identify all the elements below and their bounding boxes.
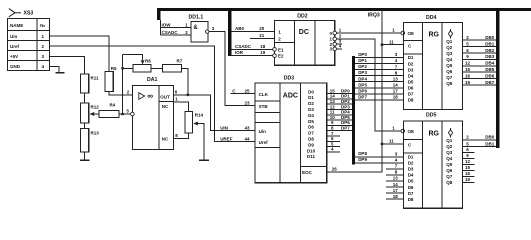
wire DD2 out1 to DD5 OE bbox=[337, 39, 402, 131]
svg-text:D8: D8 bbox=[408, 197, 414, 202]
svg-text:Q1: Q1 bbox=[446, 138, 453, 143]
DD5 tri-state symbol bbox=[448, 128, 452, 138]
svg-text:GND: GND bbox=[10, 64, 21, 69]
resistor R12 (pot) bbox=[80, 103, 88, 123]
svg-text:D5: D5 bbox=[408, 179, 414, 184]
resistor R6 (pot) bbox=[133, 65, 151, 73]
wires DP8/DP9 to DD5 bbox=[355, 156, 403, 158]
svg-text:Q3: Q3 bbox=[446, 51, 453, 56]
svg-text:21: 21 bbox=[259, 33, 265, 38]
DD4 outputs to DB bus bbox=[463, 40, 497, 85]
svg-text:D6: D6 bbox=[408, 86, 414, 91]
ground (R13) bbox=[80, 159, 90, 161]
ADC D8-D11 stubs bbox=[327, 136, 340, 152]
svg-text:IOW: IOW bbox=[162, 22, 172, 27]
resistor R7 bbox=[162, 65, 181, 73]
ADC D labels inside bbox=[307, 89, 316, 159]
svg-text:Q7: Q7 bbox=[446, 174, 453, 179]
svg-text:R11: R11 bbox=[91, 76, 100, 81]
wire +5V from table to R11 top bbox=[50, 56, 85, 74]
svg-text:DB7: DB7 bbox=[485, 80, 494, 85]
svg-text:DD3: DD3 bbox=[284, 76, 294, 82]
svg-text:DP0: DP0 bbox=[358, 52, 367, 57]
svg-text:DB1: DB1 bbox=[485, 41, 494, 46]
svg-text:DP3: DP3 bbox=[358, 70, 367, 75]
svg-text:16: 16 bbox=[465, 171, 471, 176]
bus stub 2 (AB0/CSADC/IOR tap) bbox=[228, 8, 231, 56]
svg-text:D9: D9 bbox=[308, 142, 314, 147]
svg-text:OE: OE bbox=[408, 31, 415, 36]
DD5 OE bubble bbox=[401, 129, 405, 133]
svg-text:OE: OE bbox=[408, 129, 415, 134]
svg-text:D2: D2 bbox=[308, 101, 314, 106]
svg-text:D1: D1 bbox=[408, 155, 414, 160]
svg-text:13: 13 bbox=[393, 176, 399, 181]
svg-text:DP2: DP2 bbox=[341, 99, 350, 104]
wiper arrow R4 into R12 bbox=[94, 113, 99, 115]
svg-text:25: 25 bbox=[245, 88, 251, 93]
wire GND from table bbox=[50, 66, 59, 72]
svg-text:D8: D8 bbox=[408, 98, 414, 103]
svg-text:18: 18 bbox=[393, 194, 399, 199]
DD5 unused output stubs bbox=[463, 152, 475, 182]
svg-text:DP1: DP1 bbox=[358, 58, 367, 63]
svg-text:D10: D10 bbox=[307, 148, 316, 153]
svg-text:14: 14 bbox=[393, 83, 399, 88]
svg-text:D11: D11 bbox=[307, 154, 316, 159]
wire R13 to ground bbox=[84, 152, 86, 160]
svg-text:44: 44 bbox=[245, 137, 251, 142]
decoder DD2 bbox=[275, 13, 335, 65]
wire stub DD2 out3 bbox=[337, 48, 342, 50]
node (EOC to DD4 C) bbox=[381, 43, 384, 46]
svg-text:Q5: Q5 bbox=[446, 162, 453, 167]
svg-text:DB2: DB2 bbox=[485, 48, 494, 53]
DD2 output 0 bubble bbox=[333, 31, 337, 35]
connector XS3 symbol bbox=[9, 9, 21, 17]
svg-text:DP6: DP6 bbox=[358, 88, 367, 93]
svg-text:DP6: DP6 bbox=[341, 120, 350, 125]
EOC wire to IRQ3 / register clocks bbox=[327, 11, 382, 172]
svg-text:NC: NC bbox=[162, 136, 169, 141]
svg-text:19: 19 bbox=[465, 177, 471, 182]
resistor R14 (pot) bbox=[185, 111, 193, 133]
svg-text:DB0: DB0 bbox=[485, 135, 494, 140]
DP labels (ADC side) bbox=[341, 88, 350, 130]
svg-text:14: 14 bbox=[330, 94, 336, 99]
svg-text:D4: D4 bbox=[308, 113, 314, 118]
svg-text:DB5: DB5 bbox=[485, 67, 494, 72]
bus stub left (IOW/CSADC tap) bbox=[157, 8, 160, 20]
svg-text:D3: D3 bbox=[308, 107, 314, 112]
wiper of R14 to ground bbox=[193, 122, 198, 126]
wire DA1 OUT to ADC UIN bbox=[174, 95, 256, 131]
svg-text:DP8: DP8 bbox=[358, 151, 367, 156]
DD1.1 output bubble pin3 bbox=[206, 30, 209, 33]
svg-text:R13: R13 bbox=[91, 131, 100, 136]
svg-text:№: № bbox=[40, 23, 45, 28]
svg-text:13: 13 bbox=[393, 76, 399, 81]
svg-text:CSADC: CSADC bbox=[162, 30, 179, 35]
DP data bus (vertical) bbox=[352, 56, 355, 165]
svg-text:11: 11 bbox=[389, 138, 394, 143]
svg-text:DB0: DB0 bbox=[485, 35, 494, 40]
svg-text:Uref: Uref bbox=[10, 44, 20, 49]
resistor R4 bbox=[99, 111, 119, 118]
register DD4 bbox=[403, 15, 462, 110]
wire AB0 to DD2 bbox=[231, 31, 274, 33]
svg-text:D2: D2 bbox=[408, 161, 414, 166]
svg-text:DB1: DB1 bbox=[485, 141, 494, 146]
svg-text:DD4: DD4 bbox=[426, 15, 436, 21]
wire R5 bottom to DA1 pin 2 bbox=[109, 92, 133, 95]
ADC data outputs D0-D7 to DP bus bbox=[327, 94, 352, 131]
DD4 tri-state symbol bbox=[448, 29, 452, 39]
DP labels (DD4 side) bbox=[358, 52, 367, 99]
wires DP0-DP7 to DD4 inputs bbox=[355, 58, 403, 100]
svg-text:17: 17 bbox=[393, 89, 399, 94]
svg-text:DP5: DP5 bbox=[358, 82, 367, 87]
DD2 output 3 bubble bbox=[333, 47, 337, 51]
svg-text:Q8: Q8 bbox=[446, 81, 453, 86]
svg-text:D1: D1 bbox=[308, 95, 314, 100]
svg-text:E2: E2 bbox=[278, 54, 284, 59]
wire stub DD2 input 2 bbox=[250, 38, 275, 40]
svg-text:R12: R12 bbox=[91, 105, 100, 110]
svg-text:D5: D5 bbox=[408, 79, 414, 84]
svg-text:+5V: +5V bbox=[10, 54, 18, 59]
DD5 input pin numbers bbox=[393, 152, 399, 199]
svg-text:17: 17 bbox=[393, 188, 399, 193]
svg-text:23: 23 bbox=[245, 101, 251, 106]
svg-text:15: 15 bbox=[330, 88, 336, 93]
svg-text:&: & bbox=[193, 25, 198, 31]
resistor R11 bbox=[80, 74, 88, 93]
svg-text:14: 14 bbox=[393, 182, 399, 187]
DD4 OE bubble bbox=[401, 31, 405, 35]
svg-text:26: 26 bbox=[332, 167, 338, 172]
resistor R5 bbox=[105, 72, 113, 92]
svg-text:D7: D7 bbox=[408, 191, 414, 196]
svg-text:Q4: Q4 bbox=[446, 57, 453, 62]
svg-text:D7: D7 bbox=[408, 92, 414, 97]
svg-text:12: 12 bbox=[465, 61, 471, 66]
svg-text:Q8: Q8 bbox=[446, 180, 453, 185]
wire R4 to DA1 pin3 node bbox=[119, 113, 131, 115]
wire pin1 to R14 top bbox=[174, 102, 189, 112]
node (junction R4/R6 feedback) bbox=[121, 113, 124, 116]
wire R11-R12 bbox=[84, 93, 86, 103]
svg-text:R6: R6 bbox=[145, 58, 151, 63]
ground (R14 wiper) bbox=[199, 159, 209, 161]
svg-text:NAME: NAME bbox=[10, 23, 23, 28]
wire IOR to DD2 E2 bbox=[231, 55, 272, 57]
svg-text:RG: RG bbox=[429, 130, 440, 137]
svg-text:DP5: DP5 bbox=[341, 115, 350, 120]
op-amp DA1 bbox=[133, 77, 174, 149]
register DD5 bbox=[403, 113, 462, 209]
svg-text:19: 19 bbox=[465, 80, 471, 85]
svg-text:ADC: ADC bbox=[283, 92, 298, 99]
svg-text:20: 20 bbox=[259, 26, 265, 31]
svg-text:11: 11 bbox=[330, 110, 335, 115]
svg-text:R7: R7 bbox=[177, 58, 183, 63]
pin 3 inverting bubble bbox=[131, 112, 135, 116]
svg-text:CLK: CLK bbox=[259, 92, 269, 97]
resistor R13 bbox=[80, 129, 88, 153]
svg-text:DB4: DB4 bbox=[485, 61, 494, 66]
DD5 unused output pin numbers bbox=[465, 147, 471, 182]
wire stub DD2 out2 bbox=[337, 43, 342, 45]
svg-text:DP1: DP1 bbox=[341, 94, 350, 99]
svg-text:D0: D0 bbox=[308, 89, 314, 94]
wire C to CLK bbox=[231, 93, 256, 95]
svg-text:D4: D4 bbox=[408, 73, 414, 78]
wire R6 left + wiper vertical bbox=[122, 55, 124, 115]
svg-text:Uref: Uref bbox=[259, 140, 269, 145]
connector pin table XS3 bbox=[8, 19, 50, 71]
svg-text:43: 43 bbox=[245, 125, 251, 130]
svg-text:13: 13 bbox=[330, 99, 336, 104]
wire DD1.1 out to ADC STB bbox=[209, 32, 255, 106]
svg-text:DA1: DA1 bbox=[147, 77, 157, 83]
svg-text:DP2: DP2 bbox=[358, 64, 367, 69]
DB data bus (vertical right) bbox=[496, 8, 500, 148]
svg-text:Uin: Uin bbox=[10, 34, 18, 39]
svg-text:D1: D1 bbox=[408, 55, 414, 60]
svg-text:15: 15 bbox=[465, 67, 471, 72]
svg-text:Q1: Q1 bbox=[446, 39, 453, 44]
svg-text:D3: D3 bbox=[408, 167, 414, 172]
DD2 output 1 bubble bbox=[333, 37, 337, 41]
svg-text:NC: NC bbox=[162, 104, 169, 109]
svg-text:D6: D6 bbox=[308, 125, 314, 130]
ADC DD3 bbox=[255, 76, 327, 183]
svg-text:XS3: XS3 bbox=[24, 11, 34, 17]
svg-text:DP7: DP7 bbox=[358, 94, 367, 99]
wire CSADC to DD1.1 pin2 bbox=[161, 34, 191, 36]
svg-text:18: 18 bbox=[393, 95, 399, 100]
DD5 unused input stubs bbox=[386, 169, 404, 199]
DB labels DD4 bbox=[485, 35, 494, 85]
top bus bbox=[157, 8, 531, 11]
gate DD1.1 bbox=[189, 14, 209, 42]
svg-text:R14: R14 bbox=[195, 113, 204, 118]
svg-text:DD1.1: DD1.1 bbox=[189, 14, 204, 20]
svg-text:D5: D5 bbox=[308, 119, 314, 124]
svg-text:D7: D7 bbox=[308, 131, 314, 136]
DD5 outputs DB0/DB1 bbox=[463, 139, 497, 141]
svg-text:DP4: DP4 bbox=[341, 110, 350, 115]
svg-text:EOC: EOC bbox=[302, 170, 313, 175]
svg-text:UREF: UREF bbox=[220, 137, 233, 142]
svg-text:E1: E1 bbox=[278, 47, 284, 52]
svg-text:DC: DC bbox=[299, 29, 309, 36]
svg-text:12: 12 bbox=[330, 104, 336, 109]
svg-text:UIN: UIN bbox=[220, 125, 228, 130]
svg-text:AB0: AB0 bbox=[235, 26, 244, 31]
DD4 input pin numbers bbox=[393, 52, 399, 99]
svg-text:∞: ∞ bbox=[147, 92, 153, 101]
svg-text:DP9: DP9 bbox=[358, 157, 367, 162]
wire CSADC to DD2 E1 bbox=[231, 48, 272, 50]
svg-text:IRQ3: IRQ3 bbox=[368, 12, 380, 18]
wire R7 to output node bbox=[182, 68, 188, 95]
svg-text:16: 16 bbox=[465, 73, 471, 78]
ground (table GND) bbox=[55, 72, 64, 74]
svg-text:D6: D6 bbox=[408, 185, 414, 190]
svg-text:IOR: IOR bbox=[235, 50, 244, 55]
wire C to DD4 bbox=[382, 44, 403, 46]
svg-text:11: 11 bbox=[389, 39, 394, 44]
svg-text:12: 12 bbox=[465, 159, 471, 164]
DD4 output pin numbers bbox=[465, 35, 471, 85]
svg-text:RG: RG bbox=[429, 32, 440, 39]
svg-text:DD2: DD2 bbox=[297, 13, 307, 19]
svg-text:DB3: DB3 bbox=[485, 54, 494, 59]
svg-text:D8: D8 bbox=[308, 137, 314, 142]
DD2 E2 bubble bbox=[273, 54, 277, 58]
wire R6-R7 bbox=[151, 67, 162, 69]
DD2 E1 bubble bbox=[273, 48, 277, 52]
svg-text:Q7: Q7 bbox=[446, 75, 453, 80]
svg-text:D4: D4 bbox=[408, 173, 414, 178]
node (R6 left/wiper) bbox=[121, 67, 124, 70]
DD2 output 2 bubble bbox=[333, 42, 337, 46]
svg-text:CSADC: CSADC bbox=[235, 44, 252, 49]
wire C to DD5 bbox=[382, 143, 403, 145]
svg-text:DD5: DD5 bbox=[426, 113, 436, 119]
wiper arm of R6 bbox=[123, 55, 143, 61]
svg-text:OUT: OUT bbox=[160, 94, 170, 99]
svg-text:R5: R5 bbox=[111, 66, 117, 71]
svg-text:Uin: Uin bbox=[259, 129, 267, 134]
wire DD2 out0 to DD4 OE bbox=[337, 32, 402, 34]
wire Uin from table to R5 top bbox=[50, 36, 109, 72]
svg-text:DB6: DB6 bbox=[485, 73, 494, 78]
svg-text:DP0: DP0 bbox=[341, 88, 350, 93]
svg-text:STB: STB bbox=[259, 104, 269, 109]
wire IOW to DD1.1 pin1 bbox=[161, 27, 191, 29]
svg-text:Q6: Q6 bbox=[446, 168, 453, 173]
svg-text:DP3: DP3 bbox=[341, 104, 350, 109]
svg-text:18: 18 bbox=[260, 44, 266, 49]
svg-text:D2: D2 bbox=[408, 61, 414, 66]
svg-text:Q4: Q4 bbox=[446, 156, 453, 161]
svg-text:15: 15 bbox=[465, 165, 471, 170]
svg-text:10: 10 bbox=[330, 115, 336, 120]
node (EOC to DD5 C) bbox=[381, 143, 384, 146]
svg-text:Q6: Q6 bbox=[446, 69, 453, 74]
svg-text:Q2: Q2 bbox=[446, 144, 453, 149]
wire R12-R13 bbox=[84, 123, 86, 129]
ADC right pin numbers bbox=[330, 88, 336, 151]
svg-text:D3: D3 bbox=[408, 67, 414, 72]
svg-text:Q2: Q2 bbox=[446, 45, 453, 50]
svg-text:DP4: DP4 bbox=[358, 76, 367, 81]
svg-text:19: 19 bbox=[260, 50, 266, 55]
wire pin8 to R14 bottom bbox=[174, 133, 189, 138]
svg-text:DP7: DP7 bbox=[341, 126, 350, 131]
node (feedback/output) bbox=[186, 93, 189, 96]
svg-text:Q5: Q5 bbox=[446, 63, 453, 68]
svg-text:Q3: Q3 bbox=[446, 150, 453, 155]
svg-text:R4: R4 bbox=[110, 103, 116, 108]
wire Uref from table to ADC pin 44 bbox=[50, 46, 256, 142]
